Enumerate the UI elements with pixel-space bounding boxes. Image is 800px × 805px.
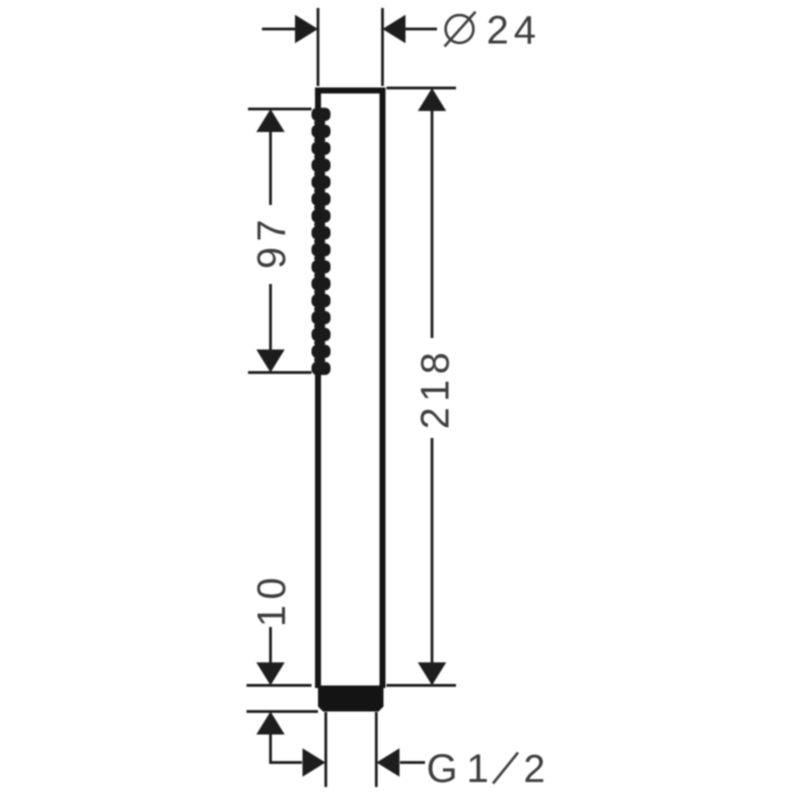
svg-text:218: 218 [414,347,458,429]
svg-text:24: 24 [487,9,542,53]
extension line right (Ø24) [381,8,384,86]
dim tail right (G1/2) [400,761,425,764]
spray nozzle bumps [312,108,331,375]
arrow 97 up [256,109,284,132]
slash of 1/2 [493,753,518,784]
pipe thread right edge [375,712,378,787]
extension line left (Ø24) [317,8,320,86]
tick 10 top [247,684,312,687]
dim tail right (Ø24) [405,28,437,31]
svg-text:G: G [427,747,458,791]
tick 218 top [387,87,457,90]
arrow 97 down [256,350,284,373]
dim line 97 lower [269,284,272,351]
arrow G1/2 right-pointing [303,748,326,776]
arrow 218 down [418,662,446,685]
arrow Ø24 left [295,15,318,43]
threaded collar (black band) [318,686,384,712]
tick 97 bottom [248,371,312,374]
shower handle body outline [318,91,383,689]
label Ø symbol (circle with slash) [445,12,476,47]
dim line 218 upper [431,110,434,338]
svg-text:2: 2 [524,748,546,791]
dim tail left (Ø24) [262,28,296,31]
dim line 218 lower [431,438,434,663]
arrow G1/2 left-pointing [377,748,400,776]
tick 218 bottom [387,684,457,687]
svg-text:1: 1 [467,747,489,791]
arrow 218 up [418,88,446,111]
tick 97 top [248,108,312,111]
leader 10 to G1/2 [271,735,303,763]
svg-text:10: 10 [250,572,294,627]
svg-text:97: 97 [250,214,294,269]
pipe thread left edge [324,712,327,787]
arrow 10 down [256,662,284,685]
tick 10 bottom [247,710,319,713]
arrow 10 up [256,712,284,735]
arrow Ø24 right [383,15,406,43]
dim line 10 upper [269,627,272,663]
dim line 97 upper [269,130,272,205]
